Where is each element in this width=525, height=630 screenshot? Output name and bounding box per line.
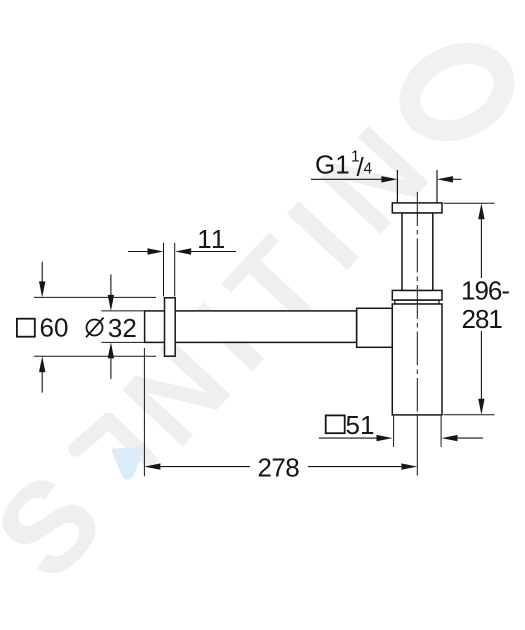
svg-text:281: 281 [462,304,503,334]
svg-text:196-: 196- [461,276,509,306]
svg-text:60: 60 [40,313,69,343]
ring [395,300,439,304]
svg-text:G1: G1 [315,150,350,180]
11 dim [163,243,165,297]
diameter symbol [86,318,104,338]
watermark letter A (chevron) [76,421,149,461]
dimensions [34,176,495,476]
pipe [145,311,357,343]
278 dim [143,348,145,476]
svg-text:51: 51 [346,410,375,440]
centerline [416,192,418,412]
svg-text:278: 278 [258,453,300,483]
tube between flanges [402,213,433,291]
watermark letter O [397,39,516,146]
top flange [392,203,442,213]
svg-text:4: 4 [364,161,373,178]
Ø32 dim [101,310,144,312]
square symbol for 51 [326,415,345,433]
svg-text:11: 11 [197,224,226,254]
196-281 dim [444,202,495,204]
G1 1/4 dim [311,178,382,180]
wall flange [165,298,176,356]
lower flange [392,290,442,300]
60 dim [34,296,156,298]
51 dim [393,416,395,447]
thread lines [396,170,398,203]
cylinder [392,304,442,415]
nut [357,308,393,347]
square symbol for 60 [17,319,35,337]
svg-text:32: 32 [108,313,137,343]
blue drop in A [112,447,144,479]
